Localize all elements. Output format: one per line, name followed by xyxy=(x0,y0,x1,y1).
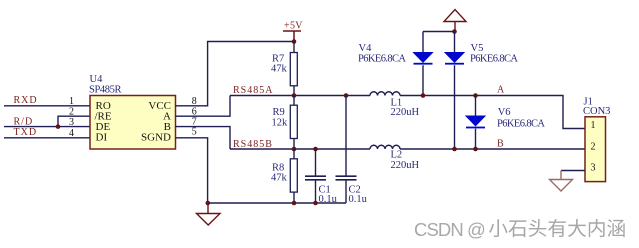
diode V4 symbol xyxy=(414,53,433,65)
pin name A xyxy=(163,111,171,123)
wire RS485A net right segment to J1 pin1 xyxy=(400,96,585,129)
svg-text:220uH: 220uH xyxy=(391,160,420,171)
svg-text:CON3: CON3 xyxy=(583,106,610,117)
svg-text:1: 1 xyxy=(591,120,596,131)
inductor L1 designator xyxy=(391,97,403,108)
IC U4 value SP485R xyxy=(89,84,122,95)
svg-text:U4: U4 xyxy=(90,74,104,85)
capacitor C2 plates xyxy=(336,176,357,180)
inductor L2 coil xyxy=(370,145,400,149)
connector J1 pin number 3 xyxy=(591,163,596,174)
diode V4 designator xyxy=(359,43,373,54)
node A label xyxy=(497,85,505,96)
svg-text:47k: 47k xyxy=(271,63,288,74)
svg-text:SP485R: SP485R xyxy=(89,84,122,95)
diode V5 symbol xyxy=(445,53,464,65)
node RS485B label xyxy=(233,139,273,150)
junction V6 top on RS485A xyxy=(473,93,478,98)
inductor L2 designator xyxy=(391,149,403,160)
node RXD label xyxy=(14,95,38,106)
wire TXD to pin 4 xyxy=(4,137,90,139)
svg-text:+5V: +5V xyxy=(284,21,303,32)
svg-text:2: 2 xyxy=(69,106,74,117)
svg-text:RXD: RXD xyxy=(14,95,38,106)
svg-text:R9: R9 xyxy=(273,107,285,118)
junction C1 bottom on rail xyxy=(313,201,318,206)
connector J1 value CON3 xyxy=(583,106,610,117)
wire V6 top stub xyxy=(475,96,477,117)
wire J1 pin 3 to ground xyxy=(561,170,585,172)
pin number 5 xyxy=(192,127,197,138)
svg-text:12k: 12k xyxy=(272,118,289,129)
junction C2 top on RS485A xyxy=(344,93,349,98)
pin number 4 xyxy=(69,128,74,139)
pin name DE xyxy=(96,121,111,133)
wire C1 top stub xyxy=(315,149,317,176)
junction V6 bottom on RS485B xyxy=(473,147,478,152)
diode V4 value P6KE6.8CA xyxy=(358,54,406,65)
svg-text:P6KE6.8CA: P6KE6.8CA xyxy=(358,54,406,65)
svg-text:1: 1 xyxy=(69,96,74,107)
diode V6 value P6KE6.8CA xyxy=(497,118,545,129)
svg-text:L2: L2 xyxy=(391,149,403,160)
resistor R9 designator xyxy=(273,107,285,118)
junction chassis node xyxy=(452,29,457,34)
wire R8 bottom stub xyxy=(293,192,295,203)
wire V4 top stub xyxy=(422,32,424,53)
wire RS485B net left segment xyxy=(230,148,370,150)
svg-text:2: 2 xyxy=(591,142,596,153)
ground symbol top chassis xyxy=(444,10,466,32)
wire RS485B net right segment to J1 pin2 xyxy=(400,148,585,150)
svg-text:47k: 47k xyxy=(271,173,288,184)
resistor R9 body xyxy=(290,105,297,138)
inductor L2 value 220uH xyxy=(391,160,420,171)
power +5V label xyxy=(284,21,303,32)
wire R7 top stub xyxy=(293,42,295,53)
capacitor C1 plates xyxy=(305,176,326,180)
pin name B xyxy=(164,121,171,133)
wire R9 top stub xyxy=(293,96,295,106)
wire pin 2 stub from R/D xyxy=(58,116,90,126)
svg-text:CSDN @: CSDN @ xyxy=(414,219,485,240)
wire V4 bottom stub xyxy=(422,65,424,95)
junction C1 top on RS485B xyxy=(313,147,318,152)
pin number 3 xyxy=(69,117,74,128)
pin number 1 xyxy=(69,96,74,107)
connector J1 pin number 1 xyxy=(591,120,596,131)
wire RXD to pin 1 xyxy=(4,105,90,107)
wire pin 6 A up to RS485A net xyxy=(176,96,231,117)
watermark chinese xyxy=(489,219,625,237)
resistor R8 body xyxy=(290,159,297,192)
svg-text:DI: DI xyxy=(96,132,108,144)
resistor R8 value 47k xyxy=(271,173,288,184)
pin number 2 xyxy=(69,106,74,117)
svg-text:TXD: TXD xyxy=(14,127,38,138)
diode V6 symbol xyxy=(466,116,485,128)
IC U4 designator xyxy=(90,74,104,85)
svg-text:P6KE6.8CA: P6KE6.8CA xyxy=(497,118,545,129)
wire ground rail xyxy=(208,202,346,204)
ground symbol left xyxy=(197,203,221,225)
junction R9 bottom on RS485B xyxy=(292,147,297,152)
wire pin 7 B down to RS485B net xyxy=(176,127,231,149)
svg-text:0.1u: 0.1u xyxy=(349,194,368,205)
junction V4 on RS485A xyxy=(421,93,426,98)
pin name /RE xyxy=(95,111,112,123)
svg-text:5: 5 xyxy=(192,127,197,138)
svg-text:3: 3 xyxy=(591,163,596,174)
pin name SGND xyxy=(141,132,171,144)
wire V5 top stub xyxy=(454,32,456,53)
wire C2 top stub from RS485A crossing RS485B xyxy=(345,96,347,176)
svg-text:A: A xyxy=(497,85,505,96)
svg-text:4: 4 xyxy=(69,128,74,139)
wire C2 bottom stub xyxy=(345,181,347,204)
svg-text:V5: V5 xyxy=(471,43,484,54)
junction R/D xyxy=(56,124,61,129)
wire chassis horizontal to V4 xyxy=(423,31,455,33)
wire R/D to pin 3 xyxy=(4,126,90,128)
pin name RO xyxy=(96,100,111,112)
watermark CSDN xyxy=(414,219,485,240)
svg-text:B: B xyxy=(497,139,504,150)
connector J1 body xyxy=(585,117,606,182)
node R/D label xyxy=(14,117,34,128)
pin number 6 xyxy=(192,106,197,117)
inductor L1 value 220uH xyxy=(391,107,420,118)
connector J1 pin number 2 xyxy=(591,142,596,153)
capacitor C2 designator xyxy=(349,185,361,196)
node B label xyxy=(497,139,504,150)
power +5V bar symbol xyxy=(283,31,301,42)
capacitor C1 value 0.1u xyxy=(319,194,338,205)
wire R9 bottom stub xyxy=(293,139,295,150)
wire R8 top stub xyxy=(293,149,295,159)
junction R8 bottom on rail xyxy=(292,201,297,206)
diode V5 value P6KE6.8CA xyxy=(470,54,518,65)
wire RS485A net left segment xyxy=(230,95,370,97)
resistor R7 value 47k xyxy=(271,63,288,74)
diode V5 designator xyxy=(471,43,484,54)
svg-text:V4: V4 xyxy=(359,43,373,54)
resistor R7 designator xyxy=(272,54,284,65)
pin name DI xyxy=(96,132,108,144)
pin name VCC xyxy=(148,100,171,112)
junction R7 bottom on RS485A xyxy=(292,93,297,98)
wire V6 bottom stub xyxy=(475,129,477,149)
pin number 8 xyxy=(192,96,197,107)
node TXD label xyxy=(14,127,38,138)
capacitor C1 designator xyxy=(319,185,331,196)
wire R7 bottom stub xyxy=(293,86,295,96)
junction +5V node xyxy=(292,39,297,44)
resistor R7 body xyxy=(290,53,297,86)
inductor L1 coil xyxy=(370,92,400,96)
svg-text:220uH: 220uH xyxy=(391,107,420,118)
junction V5 on RS485B xyxy=(452,147,457,152)
wire V5 bottom stub crossing RS485A to RS485B xyxy=(454,65,456,149)
junction SGND rail xyxy=(206,201,211,206)
diode V6 designator xyxy=(498,107,511,118)
wire C1 bottom stub xyxy=(315,181,317,204)
svg-text:RS485A: RS485A xyxy=(233,85,273,96)
capacitor C2 value 0.1u xyxy=(349,194,368,205)
resistor R8 designator xyxy=(272,163,284,174)
wire SGND pin 5 down to ground rail xyxy=(176,138,208,203)
svg-text:P6KE6.8CA: P6KE6.8CA xyxy=(470,54,518,65)
svg-text:3: 3 xyxy=(69,117,74,128)
IC U4 SP485R body xyxy=(90,96,176,150)
svg-text:0.1u: 0.1u xyxy=(319,194,338,205)
pin number 7 xyxy=(192,117,197,128)
connector J1 designator xyxy=(584,97,593,108)
node RS485A label xyxy=(233,85,273,96)
svg-text:V6: V6 xyxy=(498,107,511,118)
resistor R9 value 12k xyxy=(272,118,289,129)
wire VCC pin 8 up to +5V rail xyxy=(176,42,295,106)
ground symbol right xyxy=(550,171,573,192)
svg-text:SGND: SGND xyxy=(141,132,171,144)
